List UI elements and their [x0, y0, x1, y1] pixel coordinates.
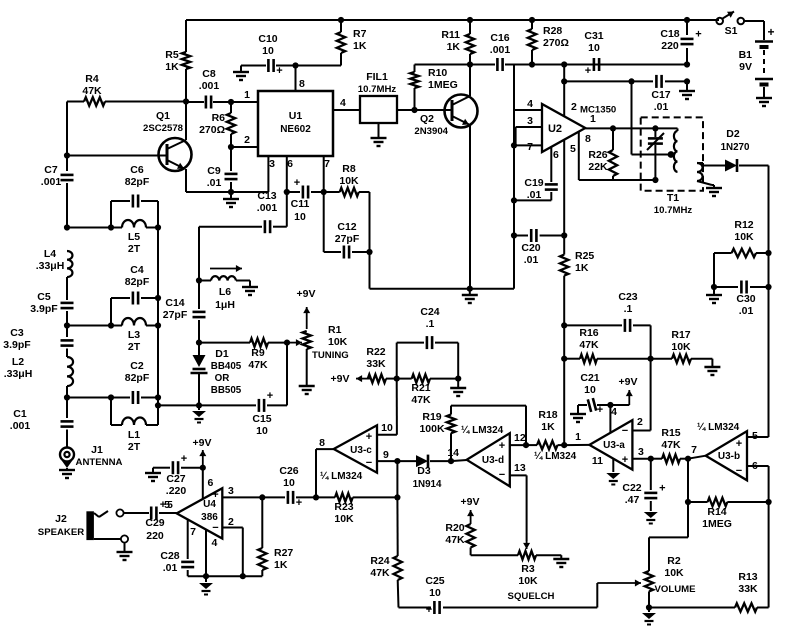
- svg-text:270Ω: 270Ω: [199, 124, 225, 136]
- svg-text:8: 8: [319, 437, 325, 449]
- capacitor C6: [110, 201, 112, 228]
- ground J1: [62, 461, 72, 468]
- svg-text:R27: R27: [274, 547, 293, 559]
- resistor R9: [199, 342, 250, 344]
- svg-text:1K: 1K: [353, 40, 367, 52]
- svg-text:1K: 1K: [165, 61, 179, 73]
- svg-text:R19: R19: [422, 411, 441, 423]
- svg-text:C11: C11: [291, 198, 310, 210]
- svg-text:9V: 9V: [739, 61, 752, 73]
- capacitor C9: [230, 147, 232, 171]
- svg-text:+: +: [499, 440, 505, 452]
- trimmer capacitor T1: [654, 128, 656, 137]
- svg-text:47K: 47K: [445, 534, 465, 546]
- svg-text:T1: T1: [667, 192, 679, 204]
- svg-text:5: 5: [167, 500, 173, 511]
- ground R17: [711, 359, 713, 366]
- svg-text:R24: R24: [370, 555, 389, 567]
- svg-text:22K: 22K: [588, 161, 608, 173]
- svg-text:220: 220: [661, 40, 679, 52]
- wire U3-b pin6: [747, 465, 769, 467]
- resistor R20: [466, 524, 474, 548]
- svg-text:C14: C14: [165, 297, 184, 309]
- svg-text:R15: R15: [661, 427, 680, 439]
- svg-text:R9: R9: [251, 347, 265, 359]
- wire R22 junction down to U3-c pin10: [396, 379, 398, 435]
- svg-text:MC1350: MC1350: [580, 105, 616, 116]
- wire R8 down: [369, 192, 371, 289]
- svg-text:7: 7: [324, 158, 330, 170]
- svg-text:+: +: [366, 431, 372, 443]
- IC U1 NE602: [258, 91, 333, 156]
- svg-text:C10: C10: [258, 33, 277, 45]
- svg-text:.01: .01: [527, 189, 542, 201]
- svg-text:1N914: 1N914: [413, 479, 442, 490]
- svg-text:47K: 47K: [82, 85, 102, 97]
- wire C23 down: [650, 325, 652, 430]
- svg-text:3: 3: [228, 485, 234, 497]
- svg-text:1K: 1K: [274, 559, 288, 571]
- svg-text:10K: 10K: [339, 175, 359, 187]
- svg-text:33K: 33K: [738, 583, 758, 595]
- svg-text:−: −: [499, 469, 505, 481]
- svg-text:2T: 2T: [128, 441, 141, 453]
- wire U3-a pin1: [564, 444, 589, 446]
- ground FIL1: [378, 123, 380, 137]
- svg-text:R20: R20: [445, 522, 464, 534]
- svg-text:¼ LM324: ¼ LM324: [320, 471, 363, 482]
- wire U1 pin4 to FIL1: [333, 109, 360, 111]
- potentiometer R3 wiper: [526, 541, 528, 549]
- svg-text:+9V: +9V: [619, 376, 638, 388]
- svg-text:C29: C29: [145, 517, 164, 529]
- svg-text:3.9pF: 3.9pF: [3, 339, 31, 351]
- capacitor C11: [284, 189, 290, 195]
- svg-text:D3: D3: [417, 465, 431, 477]
- svg-text:C16: C16: [490, 32, 509, 44]
- resistor R25: [560, 255, 568, 276]
- svg-text:BB505: BB505: [211, 385, 242, 396]
- potentiometer R3: [471, 554, 518, 556]
- svg-text:5: 5: [570, 143, 576, 155]
- battery B1: [755, 40, 773, 43]
- svg-text:L4: L4: [44, 248, 56, 260]
- ground B1: [756, 97, 772, 99]
- svg-text:C8: C8: [202, 68, 216, 80]
- ground R1: [299, 385, 315, 387]
- svg-text:2: 2: [637, 416, 643, 428]
- svg-text:47K: 47K: [661, 439, 681, 451]
- svg-text:2T: 2T: [128, 243, 141, 255]
- svg-text:2: 2: [228, 516, 234, 528]
- svg-text:+: +: [659, 483, 665, 495]
- ground R21: [457, 379, 459, 387]
- svg-text:1μH: 1μH: [215, 299, 235, 311]
- svg-text:1K: 1K: [541, 421, 555, 433]
- svg-text:C5: C5: [37, 291, 51, 303]
- svg-text:U3-d: U3-d: [482, 455, 504, 466]
- svg-text:10.7MHz: 10.7MHz: [358, 84, 397, 95]
- svg-text:R8: R8: [342, 163, 356, 175]
- inductor T1 primary: [674, 131, 678, 172]
- ground L6: [248, 280, 250, 282]
- svg-text:4: 4: [527, 98, 533, 110]
- svg-text:Q1: Q1: [156, 110, 170, 122]
- svg-text:C30: C30: [736, 293, 755, 305]
- svg-text:VOLUME: VOLUME: [654, 584, 696, 595]
- svg-text:R11: R11: [441, 29, 460, 41]
- svg-text:.220: .220: [166, 485, 187, 497]
- resistor R4: [67, 101, 84, 103]
- ground C17: [686, 81, 688, 90]
- svg-text:1MEG: 1MEG: [702, 518, 732, 530]
- capacitor C19: [550, 147, 552, 182]
- capacitor C24: [396, 343, 398, 379]
- wire U3-d output: [451, 460, 467, 461]
- op-amp U4 386: [177, 488, 223, 538]
- ground J2: [117, 551, 133, 553]
- transistor Q1: [159, 138, 192, 171]
- resistor R11: [467, 17, 473, 23]
- svg-text:82pF: 82pF: [125, 372, 150, 384]
- svg-text:U3-b: U3-b: [718, 451, 740, 462]
- potentiometer R1: [303, 331, 311, 349]
- svg-text:¼ LM324: ¼ LM324: [534, 451, 577, 462]
- svg-text:Q2: Q2: [420, 113, 434, 125]
- resistor R17: [651, 358, 672, 360]
- capacitor C21: [577, 405, 579, 413]
- svg-text:9: 9: [383, 449, 389, 461]
- svg-text:ANTENNA: ANTENNA: [76, 457, 123, 468]
- svg-text:3: 3: [269, 158, 275, 170]
- wire +9V U4: [202, 450, 204, 468]
- svg-text:+9V: +9V: [331, 373, 350, 385]
- wire tank to D1: [158, 404, 199, 406]
- svg-text:¼ LM324: ¼ LM324: [461, 425, 504, 436]
- svg-text:4: 4: [611, 406, 617, 418]
- svg-text:+: +: [276, 65, 282, 77]
- ground C27: [153, 467, 160, 469]
- capacitor C28: [187, 519, 189, 559]
- wire U3-b output: [688, 456, 706, 459]
- ground C10: [240, 66, 242, 72]
- svg-text:220: 220: [146, 530, 164, 542]
- svg-text:+: +: [267, 390, 273, 402]
- svg-text:+: +: [736, 438, 742, 450]
- svg-text:3: 3: [638, 446, 644, 458]
- inductor L4: [67, 251, 72, 277]
- svg-text:4: 4: [340, 97, 346, 109]
- svg-text:10: 10: [262, 45, 274, 57]
- svg-text:33K: 33K: [366, 358, 386, 370]
- svg-text:L2: L2: [12, 356, 24, 368]
- ground R2: [648, 608, 650, 613]
- svg-text:+: +: [212, 489, 218, 501]
- svg-text:.47: .47: [625, 494, 640, 506]
- svg-text:C7: C7: [44, 164, 58, 176]
- svg-text:10K: 10K: [518, 575, 538, 587]
- wire U2 pin4: [514, 109, 542, 111]
- node C2 wire: [64, 394, 70, 400]
- wire U4 pin3: [222, 496, 262, 498]
- svg-text:.01: .01: [207, 177, 222, 189]
- wire pin6 node down: [286, 192, 288, 227]
- svg-text:U2: U2: [548, 123, 562, 135]
- capacitor C15: [199, 404, 256, 406]
- capacitor C4: [110, 298, 112, 326]
- capacitor C20: [511, 232, 517, 238]
- svg-text:82pF: 82pF: [125, 176, 150, 188]
- svg-text:2: 2: [244, 134, 250, 146]
- capacitor C25: [399, 607, 432, 609]
- svg-text:+: +: [294, 177, 300, 189]
- resistor R5: [182, 52, 190, 69]
- svg-text:14: 14: [447, 447, 459, 459]
- node D1 bottom: [196, 402, 202, 408]
- svg-text:C31: C31: [584, 30, 603, 42]
- wire U2 pin2: [563, 65, 565, 117]
- svg-text:L3: L3: [128, 329, 140, 341]
- svg-text:FIL1: FIL1: [366, 71, 388, 83]
- diode D3: [397, 460, 416, 462]
- wire T1 bottom: [579, 179, 656, 181]
- svg-text:R18: R18: [538, 409, 557, 421]
- resistor R13: [649, 607, 735, 609]
- svg-text:4: 4: [212, 537, 218, 549]
- resistor R15: [651, 458, 662, 460]
- svg-text:82pF: 82pF: [125, 276, 150, 288]
- svg-text:10.7MHz: 10.7MHz: [654, 205, 693, 216]
- wire right rail upper: [768, 166, 770, 438]
- svg-text:R12: R12: [734, 219, 753, 231]
- wire J2 sleeve: [94, 538, 121, 540]
- svg-text:2: 2: [571, 101, 577, 113]
- svg-text:L5: L5: [128, 231, 140, 243]
- capacitor C26: [259, 494, 265, 500]
- svg-text:12: 12: [514, 432, 526, 444]
- op-amp U3-a: [589, 420, 632, 470]
- svg-text:R21: R21: [411, 382, 430, 394]
- svg-text:10: 10: [256, 425, 268, 437]
- connector J1: [60, 448, 74, 462]
- resistor R16: [564, 358, 580, 360]
- potentiometer R2: [645, 571, 653, 591]
- wire FIL1 to Q2 base: [397, 109, 451, 111]
- svg-text:C28: C28: [160, 550, 179, 562]
- svg-text:J1: J1: [91, 444, 103, 456]
- resistor R10: [411, 107, 417, 113]
- svg-text:8: 8: [585, 133, 591, 145]
- svg-text:U3-a: U3-a: [603, 440, 625, 451]
- capacitor C8: [205, 96, 208, 109]
- svg-text:47K: 47K: [411, 394, 431, 406]
- capacitor C14: [198, 281, 200, 310]
- svg-text:C26: C26: [279, 465, 298, 477]
- svg-text:10: 10: [381, 422, 393, 434]
- op-amp U3-c: [334, 425, 377, 472]
- svg-text:L6: L6: [219, 286, 231, 298]
- op-amp U3-b: [706, 431, 747, 480]
- svg-text:10K: 10K: [671, 341, 691, 353]
- resistor R27: [261, 497, 263, 548]
- wire U3-a pin2: [632, 430, 650, 432]
- wire U2 pin5: [563, 140, 565, 236]
- svg-text:R26: R26: [588, 149, 607, 161]
- capacitor C27: [160, 467, 170, 469]
- resistor R7: [338, 17, 344, 23]
- svg-text:C6: C6: [130, 164, 144, 176]
- wire T1 tap: [631, 81, 633, 154]
- ground C22: [644, 512, 658, 518]
- svg-text:.01: .01: [654, 101, 669, 113]
- svg-text:7: 7: [527, 141, 533, 153]
- inductor L3: [122, 318, 146, 326]
- svg-text:1: 1: [244, 89, 250, 101]
- wire U3-a pin3: [632, 458, 650, 460]
- potentiometer R1 wiper: [287, 342, 302, 344]
- svg-text:.33μH: .33μH: [36, 260, 65, 272]
- diode D2: [703, 165, 725, 167]
- capacitor C12: [323, 192, 325, 252]
- svg-text:C25: C25: [425, 575, 444, 587]
- svg-text:.001: .001: [41, 176, 62, 188]
- svg-text:C15: C15: [252, 413, 271, 425]
- svg-text:+: +: [160, 499, 166, 511]
- svg-text:U3-c: U3-c: [350, 445, 372, 456]
- svg-text:10K: 10K: [328, 336, 348, 348]
- wire J2 tip: [94, 513, 99, 517]
- capacitor C23: [564, 324, 622, 326]
- svg-text:R14: R14: [707, 506, 726, 518]
- svg-text:C19: C19: [524, 177, 543, 189]
- svg-text:R28: R28: [543, 25, 562, 37]
- svg-text:1N270: 1N270: [721, 142, 750, 153]
- svg-text:1K: 1K: [447, 41, 461, 53]
- svg-text:C3: C3: [10, 327, 24, 339]
- wire U3-d pin13: [510, 474, 527, 476]
- wire Q1 emitter to U1 pin3: [186, 191, 268, 193]
- svg-text:11: 11: [592, 455, 603, 467]
- resistor R19: [448, 458, 454, 464]
- svg-text:3.9pF: 3.9pF: [30, 303, 58, 315]
- svg-text:+: +: [767, 25, 774, 39]
- svg-text:+9V: +9V: [461, 496, 480, 508]
- svg-text:.01: .01: [739, 305, 754, 317]
- inductor T1 secondary: [697, 163, 703, 181]
- svg-text:R17: R17: [671, 329, 690, 341]
- svg-text:47K: 47K: [579, 339, 599, 351]
- resistor R18: [537, 441, 558, 449]
- ground R3: [560, 555, 562, 558]
- svg-text:2N3904: 2N3904: [414, 126, 448, 137]
- svg-text:C20: C20: [521, 242, 540, 254]
- svg-text:C24: C24: [420, 306, 439, 318]
- svg-text:8: 8: [299, 78, 305, 90]
- wire U3-b pin5: [747, 436, 769, 438]
- svg-text:.01: .01: [163, 562, 178, 574]
- svg-text:D2: D2: [726, 128, 740, 140]
- wire R25 node: [561, 322, 567, 328]
- svg-text:C22: C22: [622, 482, 641, 494]
- svg-text:+9V: +9V: [297, 288, 316, 300]
- wire U3-c output pin8: [316, 448, 334, 450]
- svg-text:R2: R2: [667, 555, 681, 567]
- svg-text:C18: C18: [660, 28, 679, 40]
- wire R25 to R16: [563, 325, 565, 445]
- wire U4 bottom: [188, 575, 263, 577]
- svg-text:.1: .1: [426, 318, 435, 330]
- svg-text:D1: D1: [215, 348, 229, 360]
- svg-text:270Ω: 270Ω: [543, 37, 569, 49]
- svg-text:C21: C21: [580, 372, 599, 384]
- svg-text:.001: .001: [199, 80, 220, 92]
- wire left rail: [66, 102, 68, 156]
- node U2 supply wire: [514, 64, 687, 66]
- svg-text:6: 6: [208, 477, 214, 489]
- wire U4 pin2: [222, 527, 243, 529]
- svg-text:C1: C1: [13, 408, 27, 420]
- svg-text:R25: R25: [575, 250, 594, 262]
- wire U3-c pin9: [377, 460, 397, 462]
- wire +9V U3-a: [610, 404, 629, 406]
- speaker jack J2: [86, 511, 94, 540]
- capacitor C29: [150, 507, 153, 520]
- svg-text:C13: C13: [257, 190, 276, 202]
- switch S1: [716, 18, 723, 25]
- svg-text:R5: R5: [165, 49, 179, 61]
- svg-text:3: 3: [527, 115, 533, 127]
- ground C30: [713, 287, 715, 294]
- wire U3-a pin4: [609, 405, 611, 433]
- filter FIL1: [360, 96, 397, 123]
- svg-text:+: +: [695, 29, 701, 41]
- svg-text:47K: 47K: [370, 567, 390, 579]
- resistor R24: [396, 497, 398, 556]
- wire R19 feedback: [451, 405, 526, 407]
- svg-text:+9V: +9V: [193, 437, 212, 449]
- capacitor C3: [61, 339, 74, 342]
- wire U3-a pin11 ground: [612, 458, 614, 472]
- wire U3-c pin9 down: [396, 461, 398, 497]
- ground C9: [230, 192, 232, 198]
- svg-text:1K: 1K: [575, 262, 589, 274]
- svg-text:R1: R1: [328, 324, 342, 336]
- svg-text:R16: R16: [579, 327, 598, 339]
- wire U1 pin6: [286, 156, 288, 192]
- resistor R8: [324, 191, 340, 193]
- svg-text:R22: R22: [366, 346, 385, 358]
- svg-text:+: +: [585, 65, 591, 77]
- transformer T1 box: [641, 117, 703, 190]
- svg-text:B1: B1: [739, 49, 753, 61]
- capacitor C10: [241, 65, 266, 67]
- wire U2 left vertical: [513, 65, 515, 201]
- svg-text:6: 6: [287, 158, 293, 170]
- capacitor C30: [714, 286, 738, 288]
- svg-text:¼ LM324: ¼ LM324: [697, 422, 740, 433]
- svg-text:−: −: [212, 522, 218, 534]
- svg-text:R7: R7: [353, 28, 367, 40]
- svg-text:+: +: [296, 497, 302, 509]
- wire U1 pin7: [323, 156, 325, 192]
- svg-text:C23: C23: [618, 291, 637, 303]
- resistor R21: [397, 378, 412, 380]
- svg-text:R4: R4: [85, 73, 99, 85]
- wire U2 output pin1: [585, 127, 677, 129]
- svg-text:TUNING: TUNING: [312, 350, 349, 361]
- wire U4 pin6 supply: [202, 468, 204, 499]
- svg-text:R3: R3: [521, 563, 535, 575]
